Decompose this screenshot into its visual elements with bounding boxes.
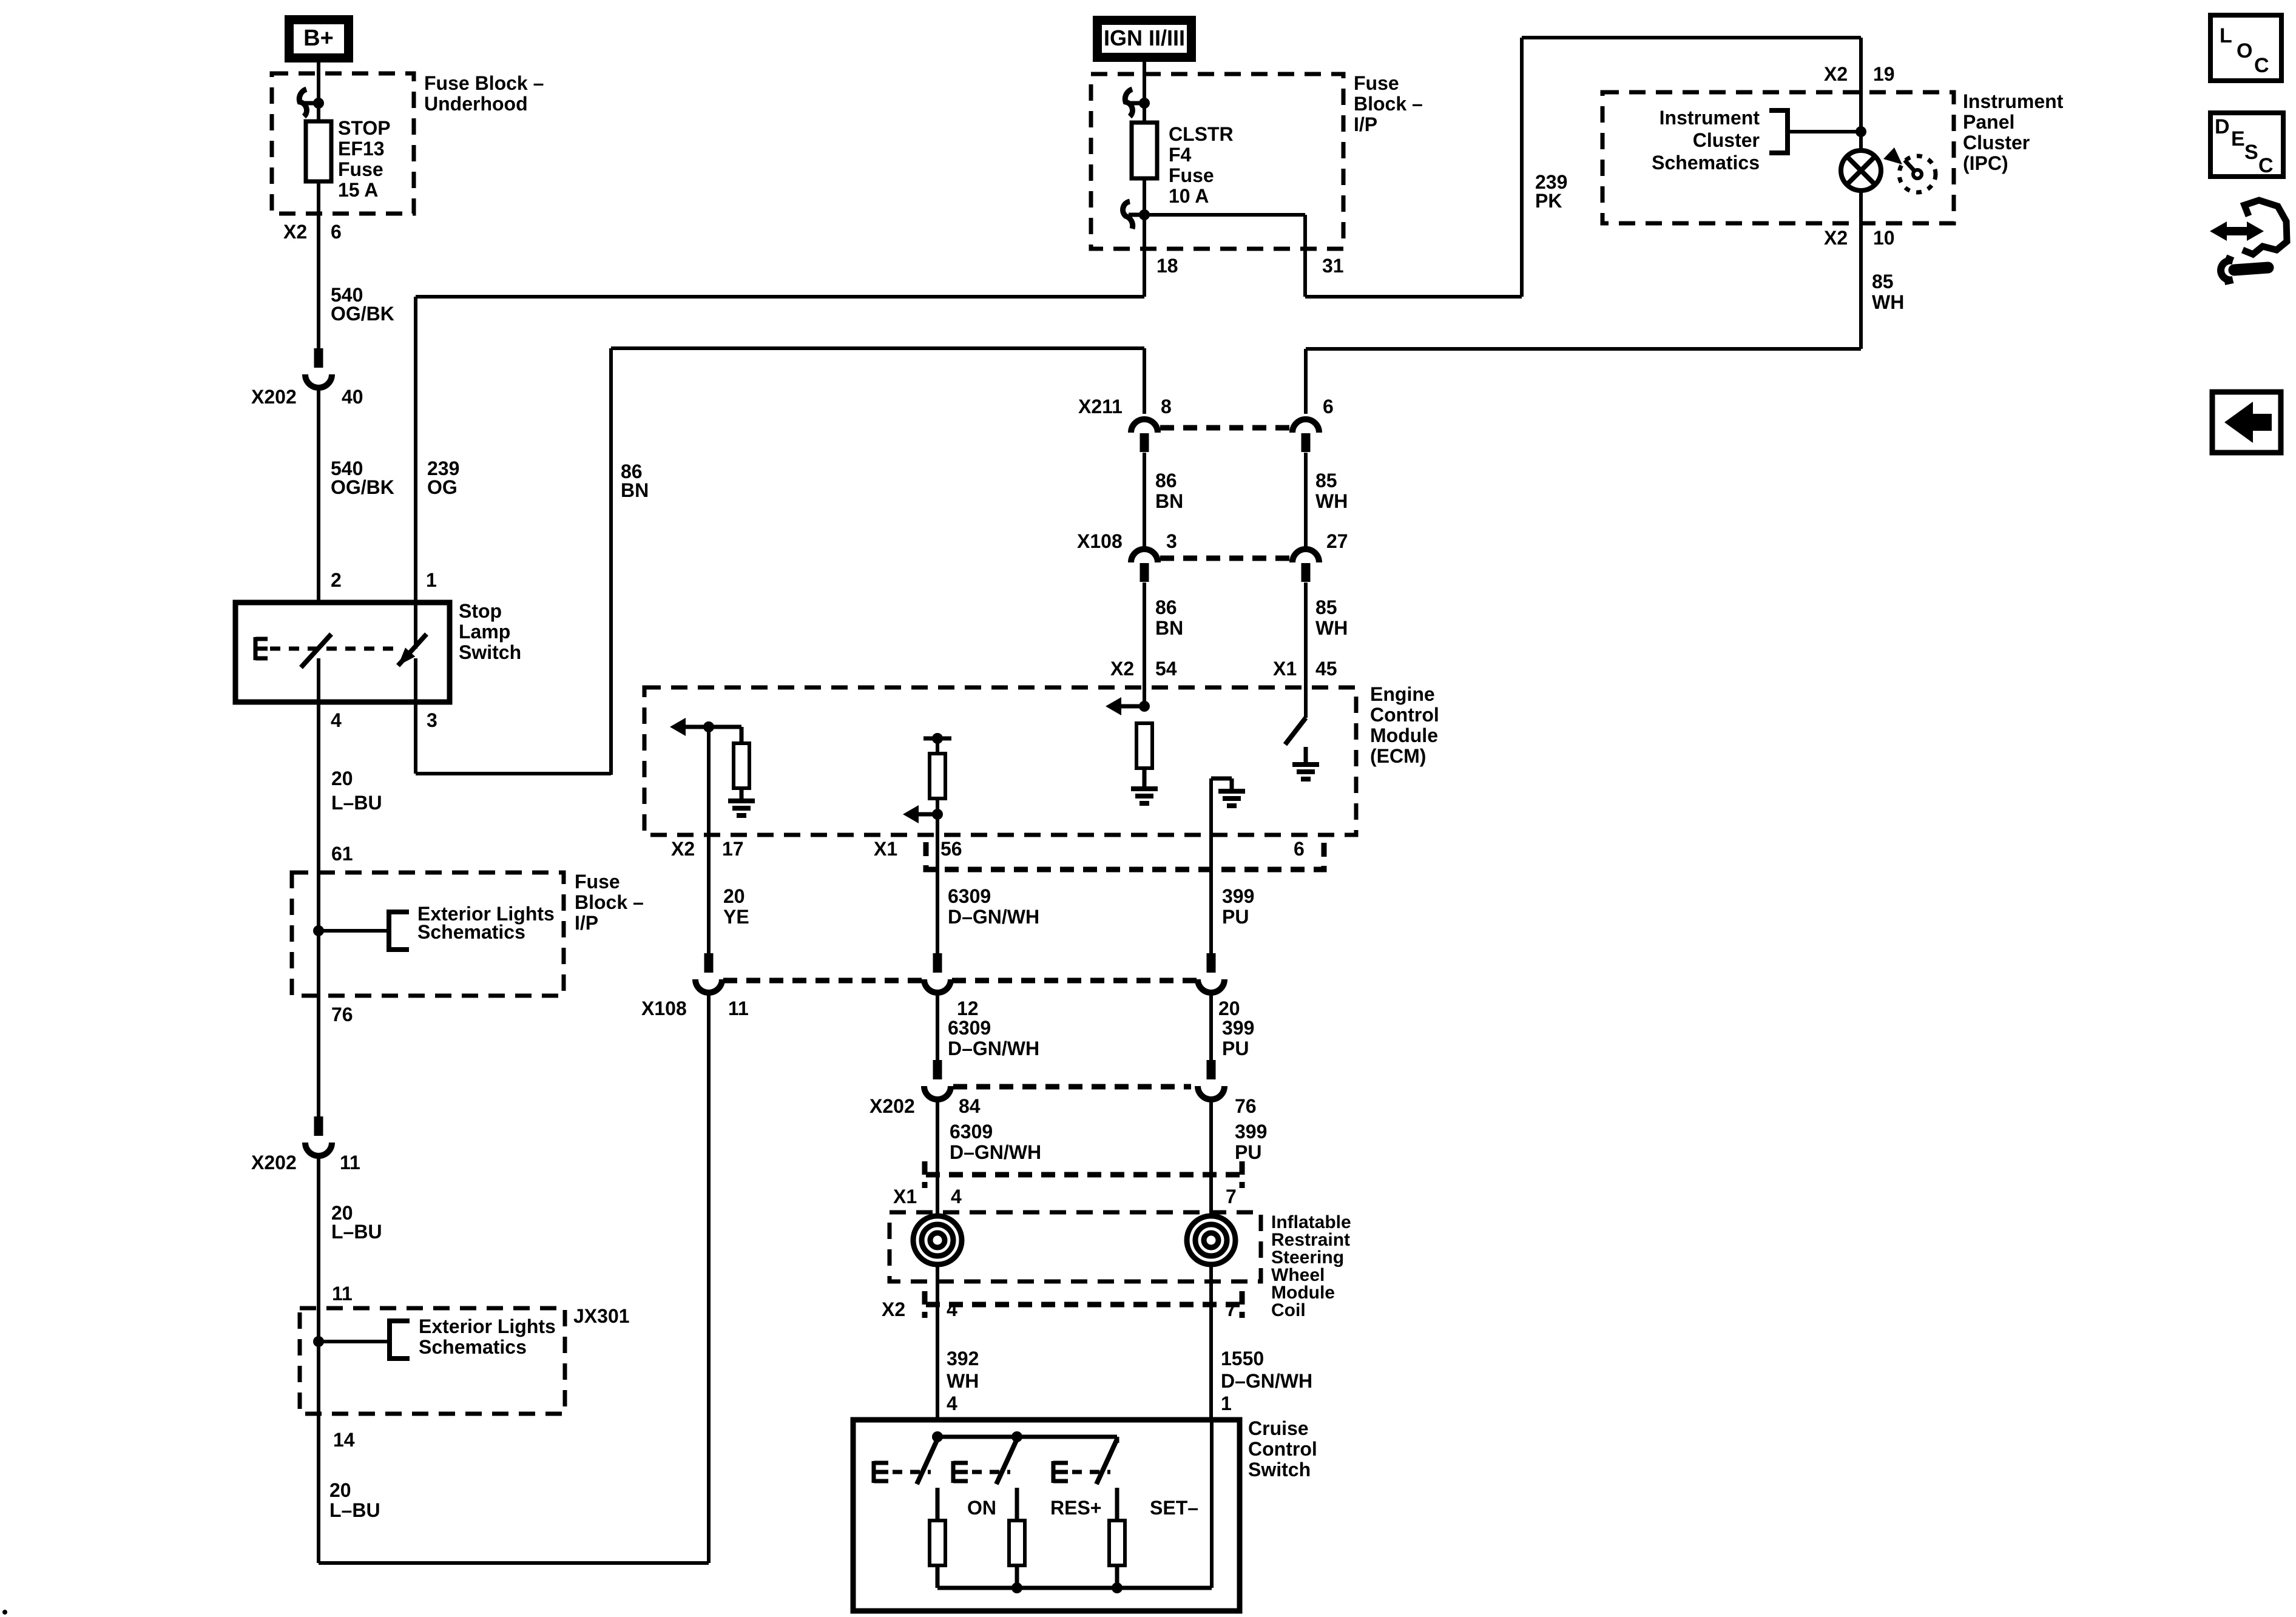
svg-text:PU: PU bbox=[1222, 906, 1249, 928]
svg-text:BN: BN bbox=[1155, 617, 1183, 639]
svg-text:X2: X2 bbox=[882, 1298, 905, 1320]
svg-text:L–BU: L–BU bbox=[331, 1221, 382, 1243]
svg-text:11: 11 bbox=[332, 1283, 353, 1305]
svg-text:D–GN/WH: D–GN/WH bbox=[950, 1141, 1041, 1163]
svg-text:3: 3 bbox=[1166, 530, 1177, 552]
svg-text:27: 27 bbox=[1326, 530, 1348, 552]
svg-text:14: 14 bbox=[333, 1429, 355, 1451]
svg-text:BN: BN bbox=[1155, 490, 1183, 512]
svg-text:12: 12 bbox=[957, 998, 979, 1019]
svg-text:Coil: Coil bbox=[1271, 1300, 1306, 1320]
svg-text:Fuse: Fuse bbox=[1169, 164, 1214, 186]
svg-text:Module: Module bbox=[1370, 724, 1438, 746]
svg-text:X2: X2 bbox=[1824, 227, 1848, 249]
svg-text:CLSTR: CLSTR bbox=[1169, 123, 1234, 145]
svg-text:2: 2 bbox=[331, 569, 342, 591]
svg-text:15 A: 15 A bbox=[338, 179, 378, 201]
svg-text:Control: Control bbox=[1248, 1438, 1317, 1460]
svg-text:40: 40 bbox=[342, 386, 363, 408]
svg-text:56: 56 bbox=[940, 838, 962, 860]
svg-text:7: 7 bbox=[1226, 1186, 1237, 1207]
svg-text:Cruise: Cruise bbox=[1248, 1417, 1309, 1439]
svg-text:D–GN/WH: D–GN/WH bbox=[1221, 1370, 1312, 1392]
svg-text:86: 86 bbox=[1155, 596, 1177, 618]
svg-text:399: 399 bbox=[1222, 885, 1254, 907]
svg-text:4: 4 bbox=[947, 1298, 957, 1320]
svg-text:10: 10 bbox=[1873, 227, 1895, 249]
svg-text:OG/BK: OG/BK bbox=[331, 476, 394, 498]
svg-text:OG: OG bbox=[427, 476, 458, 498]
svg-text:61: 61 bbox=[331, 843, 353, 865]
svg-text:8: 8 bbox=[1161, 396, 1172, 417]
svg-text:Exterior Lights: Exterior Lights bbox=[419, 1315, 556, 1337]
svg-text:Engine: Engine bbox=[1370, 683, 1435, 705]
svg-text:EF13: EF13 bbox=[338, 138, 384, 160]
svg-text:PU: PU bbox=[1235, 1141, 1261, 1163]
svg-text:6: 6 bbox=[331, 221, 342, 243]
svg-text:86: 86 bbox=[1155, 470, 1177, 491]
svg-text:1: 1 bbox=[426, 569, 437, 591]
svg-text:Block –: Block – bbox=[1354, 93, 1423, 115]
svg-text:Fuse: Fuse bbox=[1354, 72, 1399, 94]
svg-text:76: 76 bbox=[1235, 1095, 1257, 1117]
svg-text:WH: WH bbox=[1315, 490, 1348, 512]
svg-text:3: 3 bbox=[427, 709, 437, 731]
svg-text:D–GN/WH: D–GN/WH bbox=[948, 1038, 1039, 1059]
svg-text:6: 6 bbox=[1294, 838, 1305, 860]
svg-text:E: E bbox=[2231, 127, 2245, 150]
svg-text:6309: 6309 bbox=[950, 1121, 993, 1143]
svg-text:84: 84 bbox=[959, 1095, 981, 1117]
svg-text:(ECM): (ECM) bbox=[1370, 745, 1426, 767]
svg-text:PU: PU bbox=[1222, 1038, 1249, 1059]
svg-text:392: 392 bbox=[947, 1348, 979, 1369]
svg-text:20: 20 bbox=[1218, 998, 1240, 1019]
svg-text:X1: X1 bbox=[893, 1186, 917, 1207]
svg-text:85: 85 bbox=[1872, 271, 1894, 292]
svg-text:Control: Control bbox=[1370, 704, 1439, 726]
svg-text:X2: X2 bbox=[283, 221, 307, 243]
svg-text:17: 17 bbox=[722, 838, 744, 860]
svg-text:I/P: I/P bbox=[1354, 113, 1377, 135]
svg-text:399: 399 bbox=[1235, 1121, 1267, 1143]
svg-text:7: 7 bbox=[1226, 1298, 1237, 1320]
svg-text:D–GN/WH: D–GN/WH bbox=[948, 906, 1039, 928]
svg-text:B+: B+ bbox=[303, 25, 334, 51]
svg-text:C: C bbox=[2254, 54, 2269, 77]
svg-text:Lamp: Lamp bbox=[459, 621, 510, 643]
svg-text:1550: 1550 bbox=[1221, 1348, 1264, 1369]
svg-text:F4: F4 bbox=[1169, 144, 1192, 166]
svg-text:X108: X108 bbox=[641, 998, 687, 1019]
svg-text:D: D bbox=[2215, 115, 2230, 138]
svg-text:I/P: I/P bbox=[575, 912, 598, 934]
svg-text:X202: X202 bbox=[869, 1095, 915, 1117]
svg-text:85: 85 bbox=[1315, 596, 1337, 618]
svg-text:WH: WH bbox=[947, 1370, 979, 1392]
svg-text:Schematics: Schematics bbox=[419, 1336, 527, 1358]
svg-text:S: S bbox=[2244, 141, 2258, 164]
svg-text:11: 11 bbox=[340, 1152, 360, 1173]
svg-text:PK: PK bbox=[1535, 190, 1562, 212]
svg-text:Instrument: Instrument bbox=[1660, 107, 1760, 129]
svg-text:6309: 6309 bbox=[948, 1017, 991, 1039]
svg-text:RES+: RES+ bbox=[1050, 1497, 1101, 1519]
svg-text:85: 85 bbox=[1315, 470, 1337, 491]
svg-text:YE: YE bbox=[723, 906, 749, 928]
svg-text:X2: X2 bbox=[1110, 658, 1134, 680]
svg-text:L: L bbox=[2220, 24, 2232, 47]
svg-text:20: 20 bbox=[331, 768, 353, 789]
svg-text:20: 20 bbox=[723, 885, 745, 907]
svg-text:Schematics: Schematics bbox=[1652, 152, 1760, 174]
svg-text:6: 6 bbox=[1323, 396, 1334, 417]
svg-text:4: 4 bbox=[947, 1393, 957, 1414]
svg-text:(IPC): (IPC) bbox=[1963, 152, 2008, 174]
svg-text:1: 1 bbox=[1221, 1393, 1232, 1414]
svg-text:Cluster: Cluster bbox=[1693, 129, 1760, 151]
svg-text:L–BU: L–BU bbox=[329, 1499, 380, 1521]
svg-text:X2: X2 bbox=[671, 838, 695, 860]
svg-text:X202: X202 bbox=[251, 1152, 297, 1173]
svg-text:Fuse: Fuse bbox=[575, 871, 620, 893]
svg-text:Block –: Block – bbox=[575, 891, 644, 913]
svg-text:X1: X1 bbox=[1273, 658, 1297, 680]
svg-text:L–BU: L–BU bbox=[331, 792, 382, 814]
svg-text:X202: X202 bbox=[251, 386, 297, 408]
svg-text:54: 54 bbox=[1155, 658, 1177, 680]
svg-text:WH: WH bbox=[1872, 291, 1904, 313]
svg-text:IGN II/III: IGN II/III bbox=[1104, 25, 1185, 50]
svg-text:Stop: Stop bbox=[459, 600, 502, 622]
svg-text:399: 399 bbox=[1222, 1017, 1254, 1039]
svg-text:JX301: JX301 bbox=[573, 1305, 630, 1327]
svg-text:X1: X1 bbox=[874, 838, 897, 860]
svg-text:10 A: 10 A bbox=[1169, 185, 1209, 207]
svg-text:OG/BK: OG/BK bbox=[331, 303, 394, 325]
svg-text:19: 19 bbox=[1873, 63, 1895, 85]
svg-text:Panel: Panel bbox=[1963, 111, 2014, 133]
svg-text:C: C bbox=[2258, 154, 2274, 177]
svg-text:Fuse Block –: Fuse Block – bbox=[424, 72, 544, 94]
svg-text:20: 20 bbox=[329, 1479, 351, 1501]
svg-text:45: 45 bbox=[1315, 658, 1337, 680]
svg-text:X108: X108 bbox=[1077, 530, 1123, 552]
svg-text:Fuse: Fuse bbox=[338, 158, 383, 180]
svg-text:STOP: STOP bbox=[338, 117, 391, 139]
svg-text:31: 31 bbox=[1322, 255, 1344, 277]
svg-text:18: 18 bbox=[1156, 255, 1178, 277]
svg-text:BN: BN bbox=[621, 479, 649, 501]
svg-text:ON: ON bbox=[967, 1497, 996, 1519]
svg-text:11: 11 bbox=[728, 998, 749, 1019]
svg-text:X211: X211 bbox=[1078, 396, 1123, 417]
svg-text:4: 4 bbox=[331, 709, 342, 731]
svg-text:SET–: SET– bbox=[1150, 1497, 1198, 1519]
svg-text:Cluster: Cluster bbox=[1963, 132, 2030, 154]
svg-text:4: 4 bbox=[951, 1186, 962, 1207]
svg-text:Switch: Switch bbox=[1248, 1459, 1311, 1480]
svg-text:6309: 6309 bbox=[948, 885, 991, 907]
svg-text:Schematics: Schematics bbox=[417, 921, 525, 943]
svg-text:Switch: Switch bbox=[459, 641, 521, 663]
svg-text:X2: X2 bbox=[1824, 63, 1848, 85]
svg-text:Instrument: Instrument bbox=[1963, 90, 2064, 112]
svg-text:WH: WH bbox=[1315, 617, 1348, 639]
svg-text:O: O bbox=[2237, 39, 2252, 62]
svg-text:76: 76 bbox=[331, 1004, 353, 1025]
svg-text:Underhood: Underhood bbox=[424, 93, 528, 115]
